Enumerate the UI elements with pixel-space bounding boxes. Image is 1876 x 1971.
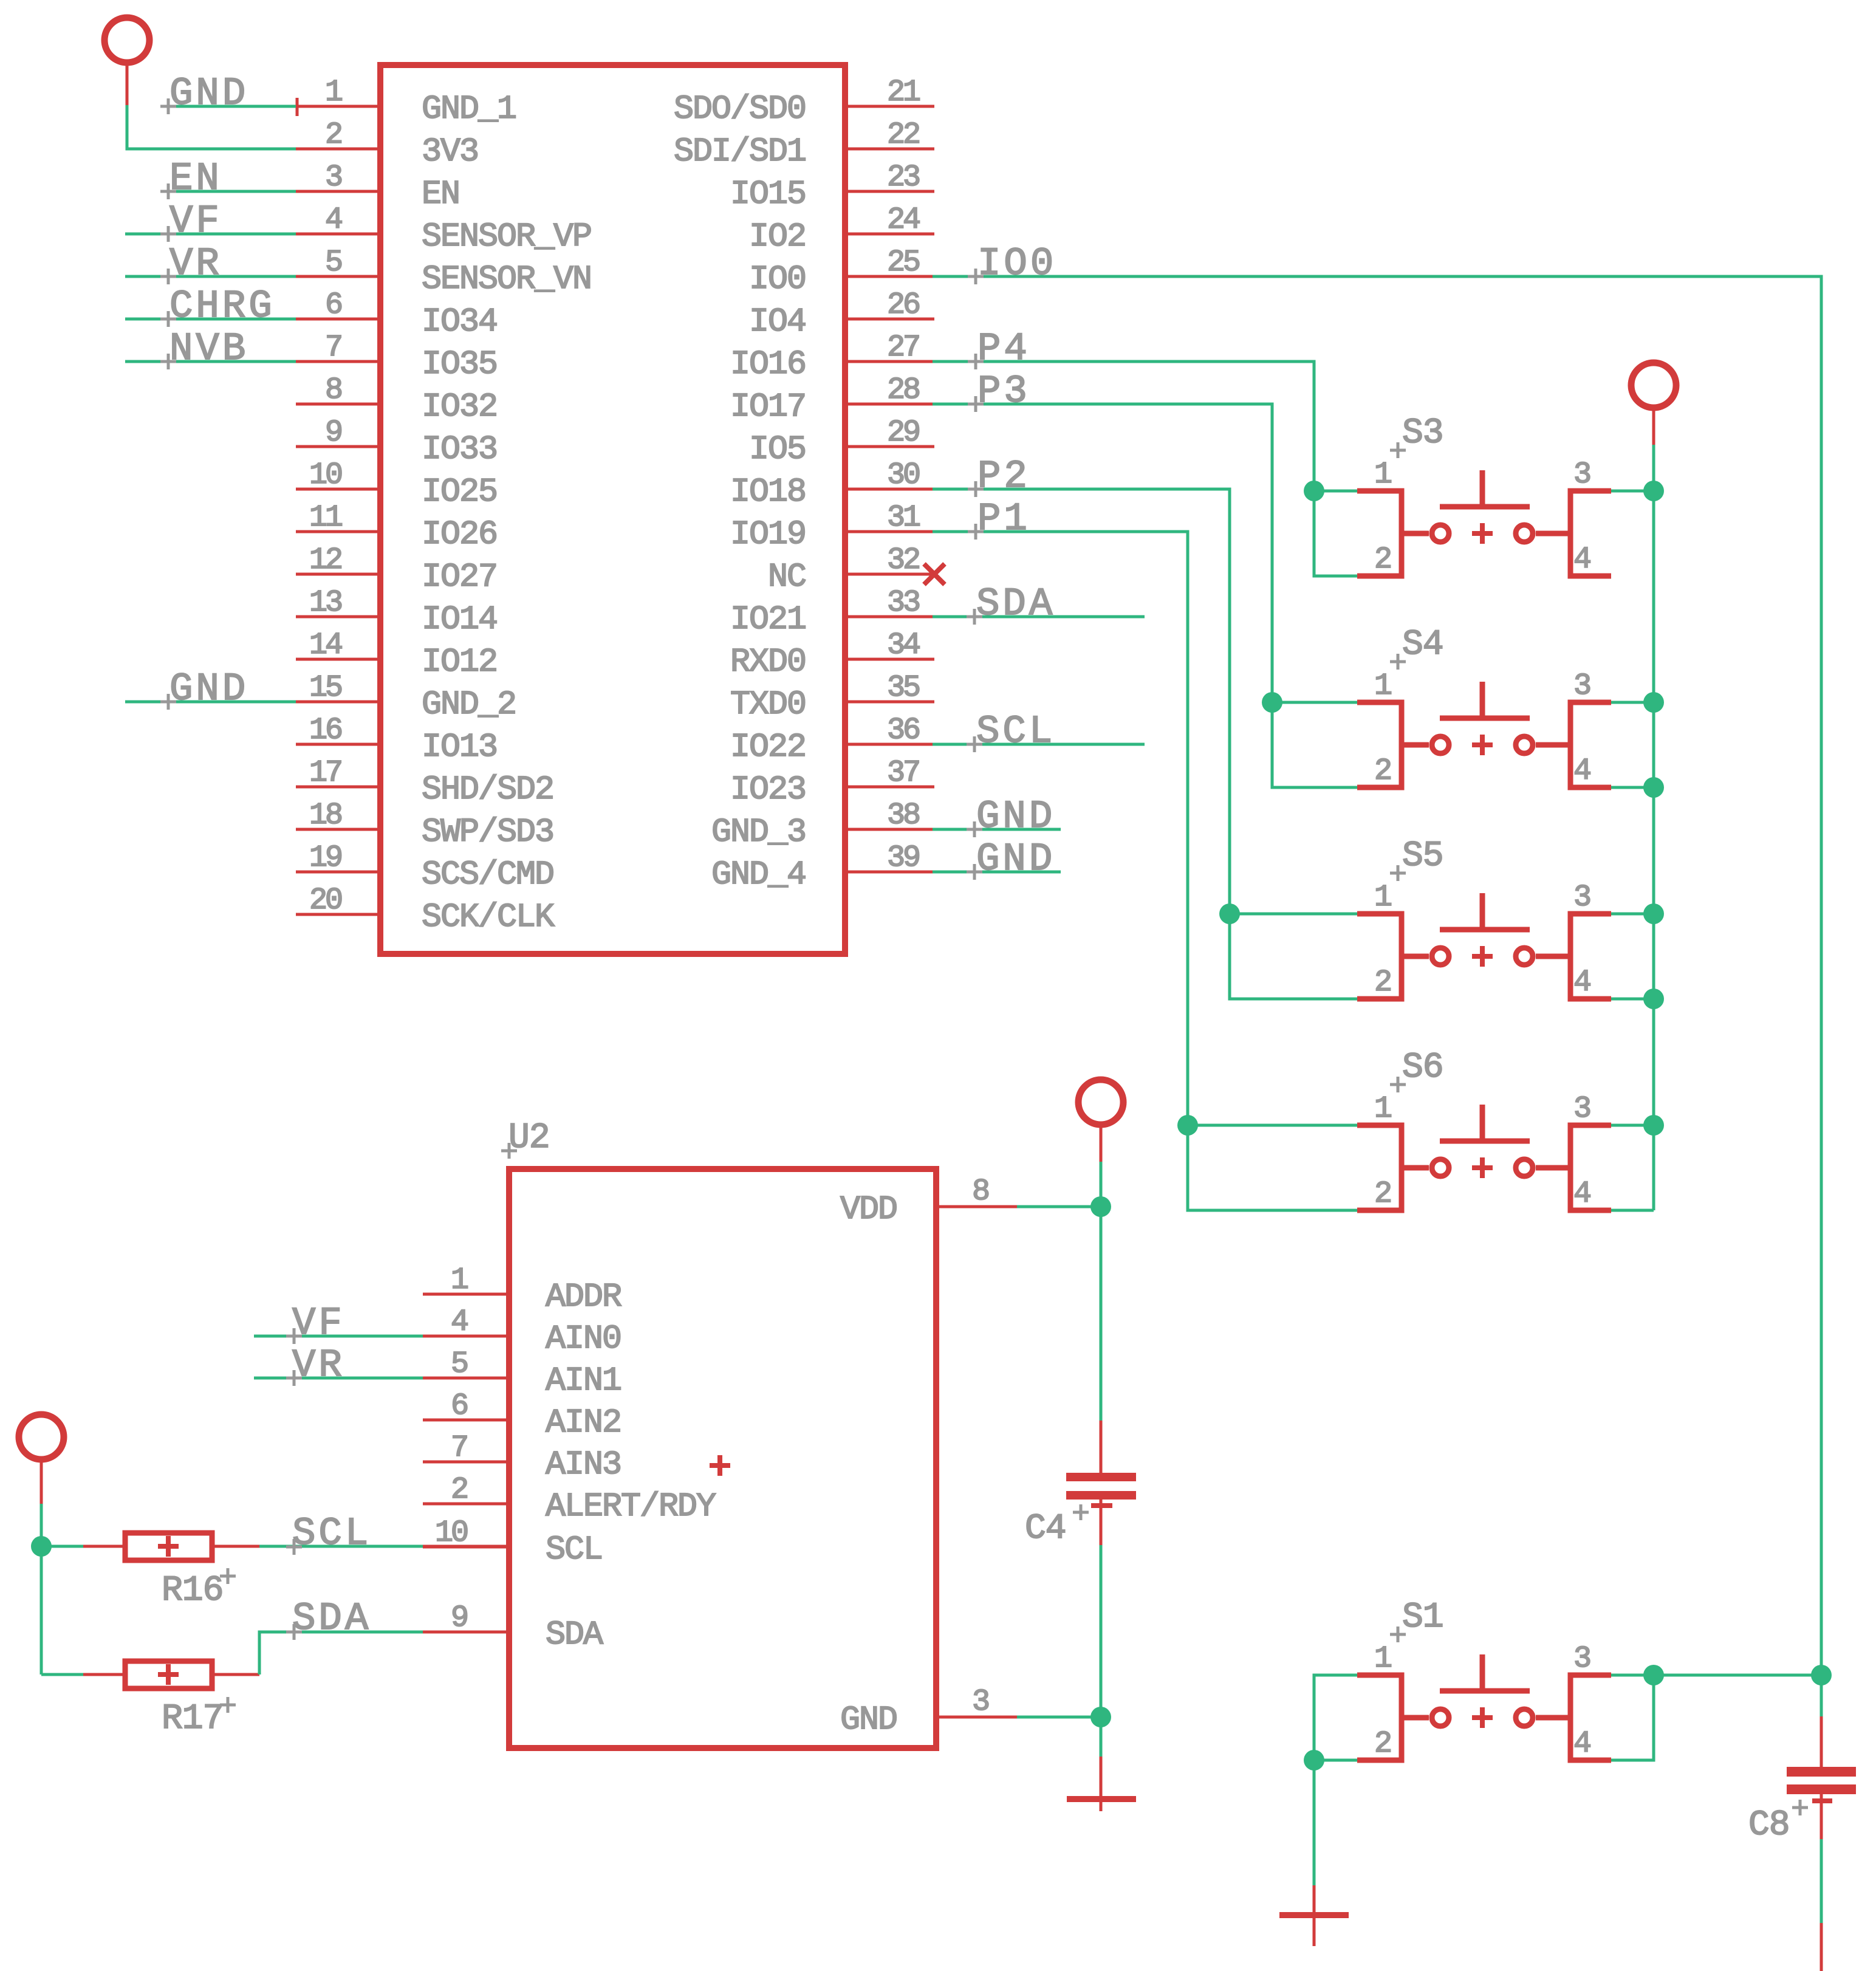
- svg-text:4: 4: [1573, 754, 1590, 789]
- svg-text:NVB: NVB: [169, 327, 248, 371]
- U1 pin 6 (IO34): [296, 288, 497, 341]
- label origin cross P1: [968, 524, 984, 540]
- svg-text:VF: VF: [169, 200, 222, 244]
- GND symbol stem below S1: [1313, 1885, 1316, 1946]
- wire R17 to U2 SDA pin: [259, 1632, 423, 1674]
- supply stem (red): [1100, 1123, 1103, 1162]
- svg-text:1: 1: [1374, 880, 1391, 915]
- svg-text:IO26: IO26: [422, 515, 497, 554]
- ground symbol stem (C4/U2): [1100, 1757, 1103, 1811]
- U1 pin 3 (EN): [296, 160, 459, 213]
- U2 internal origin plus: [710, 1455, 730, 1476]
- svg-text:IO4: IO4: [749, 303, 806, 341]
- svg-text:IO34: IO34: [422, 303, 497, 341]
- svg-text:EN: EN: [422, 175, 459, 213]
- resistor R17: [41, 1661, 259, 1688]
- U1 pin 27 (IO16): [730, 331, 934, 383]
- wire S3 pin3 to bus: [1611, 490, 1654, 493]
- wire P3: U1 pin28 to S4: [933, 404, 1272, 702]
- U2 pin 8 (VDD): [840, 1174, 1017, 1229]
- U1 pin 37 (IO23): [730, 756, 934, 809]
- svg-text:33: 33: [887, 586, 919, 620]
- ground symbol below S1: [1279, 1912, 1349, 1918]
- svg-text:10: 10: [309, 458, 341, 493]
- wire EN to U1 pin 3: [161, 190, 296, 193]
- svg-text:SHD/SD2: SHD/SD2: [422, 770, 553, 809]
- wire S5 pin4 to bus: [1611, 998, 1654, 1001]
- svg-text:12: 12: [309, 543, 341, 578]
- label origin cross GND39: [967, 864, 982, 880]
- label C4 plus mark: [1073, 1504, 1089, 1520]
- U2 origin cross: [501, 1143, 517, 1159]
- wire VR to U2 AIN1: [254, 1377, 423, 1380]
- svg-text:1: 1: [1374, 1642, 1391, 1676]
- svg-text:3: 3: [972, 1685, 988, 1719]
- svg-text:ALERT/RDY: ALERT/RDY: [546, 1487, 716, 1526]
- svg-text:11: 11: [309, 501, 342, 535]
- svg-text:2: 2: [1374, 1177, 1391, 1212]
- svg-text:IO17: IO17: [730, 388, 806, 426]
- label origin cross SCL (U2): [286, 1539, 302, 1555]
- U2 pin 2 (ALERT/RDY): [423, 1473, 716, 1526]
- svg-text:IO13: IO13: [422, 728, 497, 766]
- wire S1 junction to IO0 bus: [1654, 1674, 1821, 1677]
- U1 pin 29 (IO5): [749, 416, 934, 468]
- junction S4 left: [1262, 692, 1282, 713]
- svg-text:8: 8: [972, 1174, 988, 1209]
- U1 pin 10 (IO25): [296, 458, 497, 511]
- capacitor C4: [1066, 1421, 1136, 1545]
- wire P4: U1 pin27 to S3: [933, 362, 1314, 491]
- wire GND from U1 pin39: [933, 871, 1061, 874]
- svg-text:1: 1: [325, 75, 342, 110]
- junction S4 pin3 on bus: [1643, 692, 1664, 713]
- svg-text:26: 26: [887, 288, 919, 323]
- svg-text:IO23: IO23: [730, 770, 806, 809]
- svg-text:13: 13: [309, 586, 341, 620]
- wire GND to U1 pin 1: [162, 105, 296, 108]
- svg-text:IO18: IO18: [730, 473, 806, 511]
- svg-text:25: 25: [887, 245, 919, 280]
- svg-text:7: 7: [325, 331, 341, 365]
- U1 pin 12 (IO27): [296, 543, 497, 596]
- U2 pin 9 (SDA): [423, 1601, 603, 1654]
- svg-text:2: 2: [1374, 1727, 1391, 1761]
- supply circle above U2 VDD: [1078, 1080, 1123, 1125]
- svg-text:22: 22: [887, 118, 919, 153]
- U1 pin 36 (IO22): [730, 713, 934, 766]
- switch S5: [1357, 880, 1611, 1000]
- U1 pin 5 (SENSOR_VN): [296, 245, 591, 298]
- vertical supply bus right of switches: [1652, 445, 1655, 1210]
- svg-text:IO5: IO5: [749, 430, 806, 468]
- wire SDA from U1 pin33: [933, 615, 1145, 619]
- svg-text:S3: S3: [1402, 414, 1443, 453]
- U2 pin 6 (AIN2): [423, 1389, 621, 1442]
- svg-text:37: 37: [887, 756, 919, 790]
- svg-text:C8: C8: [1748, 1806, 1790, 1845]
- svg-text:SCK/CLK: SCK/CLK: [422, 898, 555, 936]
- svg-text:GND: GND: [840, 1701, 897, 1739]
- svg-text:SENSOR_VP: SENSOR_VP: [422, 218, 591, 256]
- wire S4 pin1/pin2 loop from junction: [1272, 702, 1357, 787]
- svg-text:39: 39: [887, 841, 919, 876]
- junction S5 left: [1219, 903, 1240, 924]
- wire junction down to ground symbol: [1100, 1717, 1103, 1757]
- U2 pin 7 (AIN3): [423, 1431, 621, 1484]
- label R17 plus mark: [220, 1697, 236, 1713]
- U1 pin 38 (GND_3): [711, 798, 934, 851]
- U2 pin 1 (ADDR): [423, 1263, 621, 1316]
- svg-text:AIN3: AIN3: [546, 1445, 621, 1484]
- wire S1 pin3 right: [1611, 1674, 1654, 1677]
- U2 pin 5 (AIN1): [423, 1347, 621, 1400]
- label origin cross VR (U2): [286, 1370, 302, 1386]
- supply circle above S3: [1631, 363, 1676, 408]
- supply stem (red): [1652, 406, 1655, 445]
- U1 pin 15 (GND_2): [296, 671, 516, 724]
- junction S6 left: [1177, 1115, 1198, 1136]
- svg-text:GND: GND: [976, 838, 1055, 882]
- wire below C8: [1820, 1839, 1823, 1923]
- label origin cross VF: [160, 226, 176, 242]
- svg-text:SDI/SD1: SDI/SD1: [674, 132, 806, 171]
- svg-text:IO0: IO0: [749, 260, 806, 298]
- wire R16 to U2 SCL pin: [259, 1545, 423, 1548]
- svg-text:18: 18: [309, 798, 341, 833]
- svg-text:35: 35: [887, 671, 919, 705]
- U1 pin 23 (IO15): [730, 160, 934, 213]
- svg-text:2: 2: [451, 1473, 467, 1507]
- NC pin 32 no-connect X: [924, 564, 945, 584]
- junction S3 left: [1304, 481, 1324, 501]
- svg-text:IO33: IO33: [422, 430, 497, 468]
- svg-text:SCL: SCL: [976, 710, 1055, 754]
- svg-text:R17: R17: [162, 1699, 223, 1739]
- U2 SCL pin stub overlay: [423, 1545, 506, 1548]
- svg-text:9: 9: [325, 416, 341, 450]
- wire S3 pin1/pin2 loop from junction: [1314, 491, 1357, 576]
- wire SCL from U1 pin36: [933, 743, 1145, 746]
- U1 pin 33 (IO21): [730, 586, 934, 639]
- svg-text:GND: GND: [169, 72, 248, 116]
- U1 pin 35 (TXD0): [730, 671, 934, 724]
- switch S6: [1357, 1092, 1611, 1212]
- junction S6 pin3 on bus: [1643, 1115, 1664, 1136]
- svg-text:9: 9: [451, 1601, 467, 1636]
- wire S6 pin4 to bus end corner: [1611, 1209, 1654, 1212]
- svg-text:5: 5: [325, 245, 341, 280]
- svg-text:GND: GND: [169, 668, 248, 711]
- svg-text:NC: NC: [768, 558, 806, 596]
- wire S6 pin1/pin2 loop from junction: [1188, 1125, 1357, 1210]
- svg-text:GND_2: GND_2: [422, 685, 516, 724]
- svg-text:4: 4: [325, 203, 342, 238]
- svg-text:P4: P4: [977, 327, 1030, 371]
- junction S1 left (to GND): [1304, 1750, 1324, 1770]
- label origin cross EN: [160, 183, 176, 199]
- junction IO0 / S1 / C8: [1811, 1665, 1832, 1685]
- svg-text:1: 1: [1374, 669, 1391, 704]
- svg-text:7: 7: [451, 1431, 467, 1465]
- label origin cross VR: [160, 269, 176, 284]
- svg-text:6: 6: [325, 288, 341, 323]
- svg-text:VR: VR: [292, 1344, 345, 1388]
- svg-text:2: 2: [1374, 965, 1391, 1000]
- svg-text:VF: VF: [292, 1302, 345, 1346]
- svg-text:2: 2: [1374, 543, 1391, 577]
- label origin cross IO0: [968, 269, 984, 284]
- wire C4 bottom to GND junction: [1100, 1545, 1103, 1717]
- svg-text:AIN1: AIN1: [546, 1362, 621, 1400]
- junction S4 pin4 on bus: [1643, 777, 1664, 798]
- U1 pin 8 (IO32): [296, 373, 497, 426]
- svg-text:38: 38: [887, 798, 919, 833]
- U1 pin 7 (IO35): [296, 331, 497, 383]
- svg-text:IO12: IO12: [422, 643, 497, 681]
- junction VDD: [1090, 1196, 1111, 1217]
- label origin cross GND38: [967, 821, 982, 837]
- svg-text:S6: S6: [1402, 1048, 1443, 1088]
- svg-text:VR: VR: [169, 242, 222, 286]
- U1 pin 39 (GND_4): [711, 841, 934, 894]
- svg-text:IO2: IO2: [749, 218, 806, 256]
- svg-text:IO22: IO22: [730, 728, 806, 766]
- junction S5 pin4 on bus: [1643, 989, 1664, 1009]
- wire S1 pin3/pin4 right loop: [1611, 1675, 1654, 1760]
- label S6: [1402, 1048, 1443, 1088]
- label origin cross P4: [968, 354, 984, 369]
- U1 pin 31 (IO19): [730, 501, 934, 554]
- label origin cross P2: [968, 481, 984, 497]
- svg-text:IO15: IO15: [730, 175, 806, 213]
- svg-text:29: 29: [887, 416, 919, 450]
- label origin cross VF (U2): [286, 1328, 302, 1344]
- U1 pin 2 (3V3): [296, 118, 478, 171]
- wire VF to U2 AIN0: [254, 1335, 423, 1338]
- label origin cross GND (pin1): [160, 98, 176, 114]
- svg-text:15: 15: [309, 671, 341, 705]
- svg-text:34: 34: [887, 628, 920, 663]
- junction S5 pin3 on bus: [1643, 903, 1664, 924]
- U1 pin 21 (SDO/SD0): [674, 75, 934, 128]
- svg-text:AIN0: AIN0: [546, 1320, 621, 1358]
- svg-text:32: 32: [887, 543, 919, 578]
- svg-text:4: 4: [451, 1305, 468, 1340]
- ground symbol below C4/U2: [1067, 1796, 1136, 1802]
- svg-text:16: 16: [309, 713, 341, 748]
- wire NVB to U1: [125, 360, 296, 363]
- label origin cross SCL: [967, 736, 982, 752]
- switch S4: [1357, 669, 1611, 789]
- svg-text:GND_1: GND_1: [422, 90, 516, 128]
- wire supply to VDD junction: [1100, 1162, 1103, 1207]
- U1 pin 20 (SCK/CLK): [296, 883, 555, 936]
- svg-text:21: 21: [887, 75, 920, 110]
- wire GND to U1 pin 15: [125, 701, 296, 704]
- label R16 plus mark: [220, 1568, 236, 1584]
- U1 pin 26 (IO4): [749, 288, 934, 341]
- svg-text:GND_3: GND_3: [711, 813, 806, 851]
- wire P1: U1 pin31 to S6: [933, 532, 1188, 1125]
- svg-text:5: 5: [451, 1347, 467, 1382]
- stub to bottom edge: [1820, 1923, 1823, 1971]
- U1 pin 11 (IO26): [296, 501, 497, 554]
- supply circle left of R16: [19, 1414, 64, 1459]
- U1 pin 22 (SDI/SD1): [674, 118, 934, 171]
- svg-text:IO32: IO32: [422, 388, 497, 426]
- wire CHRG to U1: [125, 318, 296, 321]
- svg-text:17: 17: [309, 756, 341, 790]
- svg-text:31: 31: [887, 501, 920, 535]
- label origin cross SDA (U2): [286, 1624, 302, 1640]
- svg-text:SCL: SCL: [546, 1531, 602, 1569]
- junction R16/R17 supply: [31, 1536, 52, 1557]
- svg-text:SDA: SDA: [976, 583, 1055, 626]
- wire S1 pin1/pin2 left loop: [1314, 1675, 1357, 1760]
- svg-text:IO16: IO16: [730, 345, 806, 383]
- svg-text:SDA: SDA: [292, 1597, 371, 1641]
- U1 pin 17 (SHD/SD2): [296, 756, 553, 809]
- label origin cross NVB: [160, 354, 176, 369]
- IC U1 body (ESP32 module): [380, 65, 845, 954]
- label origin cross CHRG: [160, 311, 176, 327]
- label S5: [1402, 837, 1443, 876]
- label origin cross GND (pin15): [160, 694, 176, 710]
- svg-text:S4: S4: [1402, 625, 1443, 665]
- wire junction down to R17: [40, 1546, 43, 1674]
- svg-text:1: 1: [451, 1263, 468, 1298]
- U1 pin 25 (IO0): [749, 245, 934, 298]
- label S1: [1402, 1598, 1443, 1637]
- U2 pin 4 (AIN0): [423, 1305, 621, 1358]
- U1 pin 18 (SWP/SD3): [296, 798, 553, 851]
- label origin cross P3: [968, 396, 984, 412]
- wire S1 left junction down to GND: [1313, 1760, 1316, 1885]
- U1 pin 16 (IO13): [296, 713, 497, 766]
- svg-text:SCL: SCL: [292, 1512, 371, 1556]
- svg-text:27: 27: [887, 331, 919, 365]
- U2 pin 10 (SCL): [423, 1516, 602, 1569]
- wire VR to U1: [125, 275, 296, 278]
- svg-text:IO14: IO14: [422, 600, 497, 639]
- resistor R16: [41, 1533, 259, 1560]
- wire VDD pin to junction: [1017, 1205, 1101, 1208]
- svg-text:IO21: IO21: [730, 600, 806, 639]
- U1 pin 13 (IO14): [296, 586, 497, 639]
- wire 3V3: supply to U1 pin 2: [127, 105, 296, 149]
- svg-text:AIN2: AIN2: [546, 1404, 621, 1442]
- svg-text:C4: C4: [1025, 1509, 1066, 1549]
- svg-text:4: 4: [1573, 543, 1590, 577]
- supply stem (red): [126, 61, 129, 105]
- IC U2 body: [509, 1169, 936, 1748]
- svg-text:19: 19: [309, 841, 341, 876]
- wire S6 pin3 to bus: [1611, 1124, 1654, 1127]
- U1 pin 9 (IO33): [296, 416, 497, 468]
- svg-text:GND: GND: [976, 795, 1055, 839]
- svg-text:SDA: SDA: [546, 1616, 603, 1654]
- wire S4 pin4 to bus: [1611, 786, 1654, 789]
- U1 pin 32 (NC): [768, 543, 934, 596]
- U1 origin cross at pin 1: [289, 98, 306, 116]
- switch S3: [1357, 458, 1611, 577]
- svg-text:14: 14: [309, 628, 342, 663]
- svg-text:IO19: IO19: [730, 515, 806, 554]
- svg-text:RXD0: RXD0: [730, 643, 806, 681]
- wire VF to U1: [125, 233, 296, 236]
- svg-text:1: 1: [1374, 1092, 1391, 1126]
- svg-text:CHRG: CHRG: [169, 285, 275, 329]
- wire S5 pin1/pin2 loop from junction: [1230, 914, 1357, 999]
- svg-text:IO0: IO0: [977, 242, 1056, 286]
- label S3: [1402, 414, 1443, 453]
- U1 pin 34 (RXD0): [730, 628, 934, 681]
- svg-text:3: 3: [1573, 669, 1590, 704]
- svg-text:IO35: IO35: [422, 345, 497, 383]
- svg-text:28: 28: [887, 373, 919, 408]
- label origin cross SDA: [967, 609, 982, 625]
- wire S5 pin3 to bus: [1611, 913, 1654, 916]
- U1 pin 19 (SCS/CMD): [296, 841, 553, 894]
- svg-text:1: 1: [1374, 458, 1391, 492]
- wire VDD rail down to C4: [1100, 1207, 1103, 1421]
- svg-text:P2: P2: [977, 455, 1030, 499]
- wire P2: U1 pin30 to S5: [933, 489, 1230, 914]
- wire U2 GND pin to junction: [1017, 1716, 1101, 1719]
- U1 pin 14 (IO12): [296, 628, 497, 681]
- svg-text:SDO/SD0: SDO/SD0: [674, 90, 806, 128]
- svg-text:IO27: IO27: [422, 558, 497, 596]
- wire S4 pin3 to bus: [1611, 701, 1654, 704]
- U2 pin 3 (GND): [840, 1685, 1017, 1739]
- svg-text:SENSOR_VN: SENSOR_VN: [422, 260, 591, 298]
- svg-text:4: 4: [1573, 965, 1590, 1000]
- junction S3 pin3 on bus: [1643, 481, 1664, 501]
- svg-text:4: 4: [1573, 1727, 1590, 1761]
- svg-text:8: 8: [325, 373, 341, 408]
- svg-text:36: 36: [887, 713, 919, 748]
- svg-text:P3: P3: [977, 370, 1030, 414]
- label S4: [1402, 625, 1443, 665]
- net IO0: U1 pin25 to far right and down to S1/C8: [933, 276, 1821, 1675]
- U1 pin 1 (GND_1): [296, 75, 516, 128]
- svg-text:P1: P1: [977, 498, 1030, 541]
- U1 pin 24 (IO2): [749, 203, 934, 256]
- svg-text:24: 24: [887, 203, 920, 238]
- svg-text:R16: R16: [162, 1571, 223, 1611]
- svg-text:2: 2: [325, 118, 341, 153]
- svg-text:S1: S1: [1402, 1598, 1443, 1637]
- svg-text:3: 3: [1573, 1092, 1590, 1126]
- wire GND from U1 pin38: [933, 828, 1061, 831]
- svg-text:VDD: VDD: [840, 1190, 897, 1229]
- svg-text:S5: S5: [1402, 837, 1443, 876]
- supply stem (red): [40, 1458, 43, 1504]
- supply circle top-left: [104, 18, 149, 63]
- U1 pin 28 (IO17): [730, 373, 934, 426]
- svg-text:30: 30: [887, 458, 919, 493]
- svg-text:3V3: 3V3: [422, 132, 478, 171]
- junction S1 pin3: [1643, 1665, 1664, 1685]
- svg-text:ADDR: ADDR: [546, 1278, 621, 1316]
- svg-text:23: 23: [887, 160, 919, 195]
- switch S1: [1357, 1642, 1611, 1761]
- svg-text:3: 3: [325, 160, 341, 195]
- svg-text:3: 3: [1573, 458, 1590, 492]
- svg-text:4: 4: [1573, 1177, 1590, 1212]
- U1 pin 4 (SENSOR_VP): [296, 203, 591, 256]
